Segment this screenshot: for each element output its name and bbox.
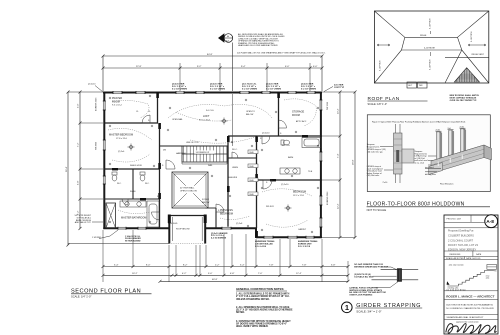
girder: bottom line (372, 279, 419, 281)
svg-text:TW 2846: TW 2846 (96, 141, 98, 150)
electrical arc: master bath (118, 210, 150, 214)
svg-text:EGRESS 3046: EGRESS 3046 (327, 191, 329, 205)
svg-text:2. ALL OPENINGS IN EXTERIOR WA: 2. ALL OPENINGS IN EXTERIOR WALL TO HAVE (236, 306, 290, 309)
svg-text:9'-4": 9'-4" (241, 66, 246, 68)
svg-text:N.J. LICENSE NO. 21AI00812700: N.J. LICENSE NO. 21AI00812700 TEL 732-55… (446, 307, 494, 310)
roof: eave boxes (407, 82, 417, 88)
svg-text:ROOM: ROOM (292, 114, 300, 117)
svg-text:NOTED.: NOTED. (236, 312, 245, 314)
svg-text:6040 SGD: 6040 SGD (168, 223, 178, 225)
fixture: hall bath tub (302, 138, 321, 148)
stair treads (184, 146, 224, 161)
svg-text:Proposed Dwelling For:: Proposed Dwelling For: (448, 230, 474, 233)
svg-text:6-12 PITCH: 6-12 PITCH (380, 60, 382, 71)
wall: sitting room top (206, 207, 217, 209)
window h11 (222, 227, 231, 230)
svg-text:LINE OF CLG: LINE OF CLG (186, 142, 199, 144)
svg-text:2 COLONIAL COURT: 2 COLONIAL COURT (448, 238, 473, 242)
wall: corridor right (227, 136, 229, 228)
svg-text:(2) 2" X 10" HEADER ABOVE UNLE: (2) 2" X 10" HEADER ABOVE UNLESS OTHERWI… (236, 309, 293, 312)
wall: WC divider (132, 170, 134, 200)
svg-text:1620 STELTON ROAD SUITE 2: 1620 STELTON ROAD SUITE 204 PISCATAWAY N… (446, 304, 493, 307)
svg-text:ATTIC ACC: ATTIC ACC (296, 120, 307, 123)
wall: bath bottom / bedroom top (257, 179, 323, 181)
fixture: shower chase X (106, 203, 116, 228)
electrical arc: storage (284, 99, 316, 126)
wall: porch back (169, 215, 206, 217)
svg-text:5'-4": 5'-4" (240, 264, 245, 266)
svg-text:5'-2 1/2" (TEMP): 5'-2 1/2" (TEMP) (301, 88, 316, 90)
section cut line (232, 43, 234, 92)
svg-text:MASTER BATHROOM: MASTER BATHROOM (121, 217, 146, 220)
window h5 (240, 91, 249, 94)
holddown: left step block (429, 163, 443, 175)
svg-text:5'-8": 5'-8" (78, 180, 80, 185)
svg-text:4-2 1/2 EGRESS: 4-2 1/2 EGRESS (211, 237, 227, 240)
wall: right exterior (320, 92, 322, 239)
window h14 (306, 236, 314, 239)
svg-text:HEADS AND SILLS PER MANUFACTUR: HEADS AND SILLS PER MANUFACTURER. (238, 44, 278, 47)
window h10 (138, 227, 146, 230)
wall poche blocks (156, 92, 159, 98)
svg-text:12'-2": 12'-2" (338, 203, 340, 209)
electrical arc: prayer (112, 100, 149, 118)
roof: slope arrows (377, 44, 390, 46)
dim: overall top 84-8 (103, 56, 322, 91)
svg-text:SCALE: 1/4" 1'-0": SCALE: 1/4" 1'-0" (71, 295, 91, 299)
svg-text:17'-8 x 13'-0: 17'-8 x 13'-0 (116, 138, 128, 140)
svg-text:2" X 6" FULL-HEIGHT WOOD STUDS: 2" X 6" FULL-HEIGHT WOOD STUDS AT 16" O.… (236, 295, 290, 298)
svg-text:A-6: A-6 (226, 40, 229, 43)
titleblock: A-8 circle (485, 215, 498, 228)
dim: top segments (103, 67, 322, 69)
titleblock: h dividers (444, 221, 498, 223)
svg-text:UNLESS OTHERWISE NOTED.: UNLESS OTHERWISE NOTED. (236, 299, 270, 301)
svg-text:R.O. 2-10 1/8: R.O. 2-10 1/8 (298, 246, 311, 248)
svg-text:PROJ NO. 1427: PROJ NO. 1427 (447, 218, 462, 220)
svg-text:OPEN TO BELOW: OPEN TO BELOW (180, 190, 197, 192)
svg-text:5'-8": 5'-8" (331, 264, 336, 266)
svg-text:6-12 PITCH: 6-12 PITCH (430, 18, 432, 29)
svg-text:CONT TYP: CONT TYP (334, 87, 345, 89)
svg-text:W/ HGR EA END: W/ HGR EA END (125, 240, 141, 243)
svg-text:REVISIONS: REVISIONS (450, 254, 462, 256)
wall: storage left (278, 92, 280, 136)
svg-text:DATE: 04-12-05: DATE: 04-12-05 (466, 257, 481, 260)
titleblock: small 2cell rect (487, 265, 497, 270)
window h3 (176, 91, 184, 94)
svg-text:at ea. stud: at ea. stud (415, 162, 424, 165)
svg-text:MASTER BEDROOM: MASTER BEDROOM (109, 134, 133, 137)
roof: outer rect (374, 11, 488, 83)
svg-text:5'-2 1/2" (TEMP): 5'-2 1/2" (TEMP) (266, 88, 281, 90)
dim: right segments (339, 92, 341, 238)
extension lines top (180, 63, 310, 91)
svg-text:(2) 2x10: (2) 2x10 (262, 133, 270, 135)
svg-text:7'-8": 7'-8" (269, 264, 274, 266)
ceiling fans (128, 144, 135, 151)
door: prayer room (142, 115, 150, 123)
electrical arc: loft (168, 105, 272, 119)
wall: top exterior (103, 92, 322, 94)
girder: number circle (342, 302, 353, 313)
svg-text:ROGER L. MANCE — ARCHITECT: ROGER L. MANCE — ARCHITECT (446, 295, 494, 299)
door: sitting room (216, 204, 224, 212)
wall: bath left (256, 136, 258, 228)
svg-text:28'-8": 28'-8" (353, 159, 355, 165)
svg-text:rim board: rim board (425, 167, 433, 169)
fixture: vanity sinks (120, 201, 146, 207)
svg-text:FOYER: FOYER (202, 199, 209, 201)
svg-text:CARPET: CARPET (298, 228, 307, 231)
roof: hip top-left (374, 11, 404, 37)
fixture: hall bath vanity (280, 168, 300, 174)
svg-text:BEDROOM: BEDROOM (293, 191, 306, 194)
svg-text:GENERAL CONSTRUCTION NOTES:: GENERAL CONSTRUCTION NOTES: (236, 287, 284, 291)
svg-text:48'-8": 48'-8" (212, 279, 218, 281)
open to below box (172, 172, 208, 208)
svg-text:9'-2": 9'-2" (197, 66, 202, 68)
svg-text:5'-4": 5'-4" (114, 264, 119, 266)
wall: bottom left section (103, 227, 169, 229)
svg-text:30x60: 30x60 (130, 191, 136, 193)
svg-text:1: 1 (345, 303, 349, 312)
window tag boxes (248, 150, 258, 154)
svg-text:COLBERT BUILDERS: COLBERT BUILDERS (448, 234, 474, 238)
svg-text:HANDRAIL: HANDRAIL (176, 152, 187, 155)
wall: step between bottom sections (255, 228, 257, 239)
svg-text:FLOOR-TO-FLOOR 800# HOLDDOWN: FLOOR-TO-FLOOR 800# HOLDDOWN (367, 201, 465, 207)
svg-text:13'-2 x 11'-8: 13'-2 x 11'-8 (293, 195, 305, 197)
svg-text:TILE: TILE (308, 171, 313, 173)
door: WC1 (122, 199, 128, 205)
svg-text:10'-2": 10'-2" (338, 108, 340, 114)
svg-text:R.O. 6-4 3/4: R.O. 6-4 3/4 (255, 245, 267, 248)
holddown: gray block (402, 149, 414, 163)
fixture: hall bath toilet (281, 140, 290, 145)
window h8 (307, 91, 315, 94)
svg-text:BELOW: BELOW (246, 114, 253, 116)
holddown: iso floor band front face (431, 145, 484, 174)
svg-text:7'-0": 7'-0" (258, 273, 263, 275)
svg-text:Figure 3: Typical 800# Floor-t: Figure 3: Typical 800# Floor-to-Floor Fr… (372, 121, 465, 124)
svg-text:SHELVES: SHELVES (228, 177, 238, 179)
wall: storage bottom / bath top (228, 135, 322, 137)
stair center rail (182, 153, 227, 155)
door: master bedroom (166, 160, 175, 169)
svg-text:LINEN: LINEN (232, 167, 238, 169)
svg-text:21'-4 x 15'-6: 21'-4 x 15'-6 (199, 120, 211, 122)
svg-text:84'-8": 84'-8" (207, 54, 213, 56)
titleblock: outer border (444, 215, 498, 334)
svg-text:LOFT: LOFT (203, 115, 210, 118)
wall: porch dashed roof edge (169, 243, 206, 245)
svg-text:3. CONTRACTOR OPTION TO INCREA: 3. CONTRACTOR OPTION TO INCREASE HEIGHT (236, 320, 291, 323)
svg-text:(2) 2x6: (2) 2x6 (118, 151, 125, 153)
svg-text:W.C.: W.C. (117, 183, 122, 185)
svg-text:OPEN RAIL: OPEN RAIL (172, 118, 184, 121)
roof: hip bottom-left (374, 50, 401, 83)
svg-text:DATE: DATE (476, 253, 482, 256)
wall: porch black jambs (168, 215, 171, 224)
svg-text:6-12 PITCH: 6-12 PITCH (471, 31, 473, 42)
svg-text:attic stair section: attic stair section (449, 264, 464, 267)
wall: bottom center-right section (206, 227, 258, 229)
svg-text:EDISON, NEW JERSEY: EDISON, NEW JERSEY (448, 248, 477, 252)
svg-text:(2) 2x8: (2) 2x8 (236, 223, 243, 225)
door: storage (279, 120, 287, 128)
wall: porch left side (168, 215, 170, 244)
window v1 (103, 101, 106, 110)
section marker A/A-6 (218, 33, 224, 43)
dim row C overall (160, 280, 348, 282)
fixture: WC1 toilet (112, 172, 117, 181)
girder: top line (381, 269, 419, 271)
switch marks (148, 120, 282, 212)
roof: hatched gable (454, 68, 479, 82)
svg-text:3'-0": 3'-0" (78, 103, 80, 108)
svg-text:7'-2": 7'-2" (78, 142, 80, 147)
svg-text:8'-2": 8'-2" (183, 264, 188, 266)
svg-text:attic: attic (486, 277, 490, 280)
svg-text:5'-0": 5'-0" (208, 273, 213, 275)
svg-text:42" HIGH WALL: 42" HIGH WALL (180, 187, 195, 190)
svg-text:5'-2 1/2" (TEMP): 5'-2 1/2" (TEMP) (172, 88, 187, 90)
window v2 (103, 140, 106, 150)
svg-text:NOT TO SCALE: NOT TO SCALE (367, 208, 387, 212)
dim: overall left 36-4 (68, 92, 169, 245)
svg-text:6'-0": 6'-0" (285, 66, 290, 68)
svg-text:0 1 2 3 4 5 6 7 8 9: 0 1 2 3 4 5 6 7 8 9 10 (447, 289, 467, 291)
svg-text:ROCKY TAYLOR, LOT 23: ROCKY TAYLOR, LOT 23 (448, 243, 478, 247)
wall: left exterior (103, 92, 105, 230)
header note clusters (172, 84, 187, 91)
svg-text:7'-8": 7'-8" (302, 264, 307, 266)
window v4 (319, 100, 322, 110)
electrical arc: sitting (220, 216, 250, 220)
roof: ridge connectors (402, 37, 462, 50)
svg-text:10d NAILS EA. SIDE: 10d NAILS EA. SIDE (354, 275, 374, 278)
holddown: straps over band (438, 155, 462, 167)
svg-text:SCALE: 3/4" = 1'-0": SCALE: 3/4" = 1'-0" (356, 310, 381, 314)
svg-text:ROOF BELOW: ROOF BELOW (176, 229, 190, 231)
svg-text:BEDROOM: BEDROOM (220, 212, 233, 215)
svg-text:RIDGE VENT: RIDGE VENT (472, 54, 485, 56)
svg-text:EGRESS 3046: EGRESS 3046 (96, 97, 98, 111)
window v5 (319, 152, 322, 161)
svg-text:(2) 2x10: (2) 2x10 (281, 184, 289, 186)
wall: prayer room bottom (104, 122, 158, 124)
outlets (109, 95, 319, 233)
holddown: iso studs (437, 132, 441, 160)
svg-text:SECOND FLOOR PLAN: SECOND FLOOR PLAN (71, 288, 141, 294)
window h12 (264, 236, 273, 239)
svg-text:HIGH. VERIFY WITH OWNER.: HIGH. VERIFY WITH OWNER. (236, 326, 269, 328)
svg-text:Requirements: Requirements (367, 145, 379, 148)
holddown: left stud bar (394, 133, 403, 174)
fixture: master tub (147, 201, 159, 227)
door: hall bath (262, 136, 270, 144)
svg-text:4'-8": 4'-8" (230, 273, 235, 275)
wall: prayer/loft divider (157, 92, 159, 123)
window h7 (288, 91, 296, 94)
dim: left segments (79, 92, 81, 229)
door: closet (232, 152, 238, 158)
svg-text:OVER 15# FELT PAPER TYP.: OVER 15# FELT PAPER TYP. (450, 99, 477, 102)
door: bedroom (263, 180, 272, 189)
holddown: iso floor band top face (431, 145, 492, 165)
holddown: band right end cap (484, 145, 492, 160)
svg-text:W.C.: W.C. (145, 183, 150, 185)
window v3 (103, 176, 106, 184)
svg-text:RIDGE: RIDGE (420, 35, 427, 37)
window h13 (288, 236, 297, 239)
svg-text:(2) 2x10: (2) 2x10 (88, 84, 96, 86)
svg-text:14 RISERS UP: 14 RISERS UP (196, 152, 210, 154)
stair landing rail (182, 162, 227, 164)
titleblock: stair marker (447, 281, 450, 285)
dim row A (103, 266, 348, 268)
svg-text:TER: TER (419, 85, 424, 87)
svg-text:6-12 PITCH: 6-12 PITCH (430, 59, 432, 70)
section cut line inside plan (232, 94, 234, 146)
fixture: WC2 toilet (140, 172, 145, 181)
svg-text:4'-2": 4'-2" (182, 273, 187, 275)
svg-text:BATH: BATH (288, 156, 294, 159)
girder: strap (397, 268, 402, 281)
holddown: left wall lines above/below (396, 124, 401, 183)
electrical arc: master bedroom (108, 128, 152, 140)
wall: sitting room left (215, 208, 217, 228)
svg-text:AND WALLS TYP.: AND WALLS TYP. (75, 221, 92, 224)
dim row B (103, 274, 348, 276)
svg-text:A-8: A-8 (486, 219, 494, 225)
svg-text:SHELF+ROD: SHELF+ROD (130, 165, 143, 167)
wall: bottom right section (256, 236, 322, 238)
svg-text:18'-2": 18'-2" (132, 273, 138, 275)
svg-text:6'-0": 6'-0" (313, 66, 318, 68)
svg-text:8'-0": 8'-0" (146, 264, 151, 266)
svg-text:SCALE: 1/8" 1'-0": SCALE: 1/8" 1'-0" (368, 103, 388, 106)
electrical arc: bedroom (262, 189, 312, 196)
window v7 (319, 218, 322, 227)
window h4 (196, 91, 204, 94)
stair label (195, 150, 215, 153)
svg-text:2'-2": 2'-2" (215, 264, 220, 266)
window h9 (118, 227, 126, 230)
svg-text:OVER FLOOR FRAMING: OVER FLOOR FRAMING (349, 294, 373, 297)
holddown: dark strap (396, 150, 399, 162)
svg-text:OPEN TO: OPEN TO (246, 111, 255, 113)
svg-text:2x6 PLATE WALL W/ 7/16 OSB SHE: 2x6 PLATE WALL W/ 7/16 OSB SHEATHING AND… (237, 52, 326, 55)
roof: ridge lower (402, 49, 462, 51)
wall: WC bottom (104, 198, 160, 200)
wall: master bedroom right (159, 123, 161, 228)
svg-text:Floor Elevation: Floor Elevation (440, 183, 453, 186)
svg-text:4-12 RIDGE: 4-12 RIDGE (424, 48, 436, 50)
svg-text:OF DOORS AND FRAMED OPENINGS T: OF DOORS AND FRAMED OPENINGS TO 8'-0" (236, 322, 287, 325)
svg-text:dbl top plate: dbl top plate (425, 173, 437, 176)
svg-text:1. ALL EXTERIOR WALLS TO BE FR: 1. ALL EXTERIOR WALLS TO BE FRAMED WITH (236, 293, 290, 296)
wall: loft bottom at stair (160, 145, 228, 147)
svg-text:5'-2 1/2" (TEMP): 5'-2 1/2" (TEMP) (210, 88, 225, 90)
svg-text:TW 3046: TW 3046 (327, 101, 329, 110)
door: master bath (152, 212, 160, 220)
wall: master bedroom bottom (104, 168, 160, 170)
svg-text:22'-8": 22'-8" (136, 66, 142, 68)
svg-text:BELOW: BELOW (202, 202, 209, 204)
svg-text:W.I.C.: W.I.C. (232, 149, 238, 151)
window h2 (136, 91, 145, 94)
bottom extension lines (103, 230, 348, 282)
stair enclosure (182, 146, 227, 162)
window h6 (262, 91, 270, 94)
svg-text:WD FLR: WD FLR (266, 206, 274, 208)
svg-text:5'-2 1/2" (TEMP): 5'-2 1/2" (TEMP) (242, 88, 257, 90)
svg-text:12'-4": 12'-4" (296, 273, 302, 275)
titleblock: v dividers (464, 215, 473, 259)
svg-text:10d nails min. typ.: 10d nails min. typ. (367, 150, 384, 153)
holddown: frame box (367, 115, 490, 192)
svg-text:SCALE: AS NOTED: SCALE: AS NOTED (446, 257, 464, 260)
holddown: band course lines (431, 149, 484, 169)
holddown: right leaders (425, 169, 441, 172)
svg-text:SIGNATURE AND SEAL OF ARCH: SIGNATURE AND SEAL OF ARCHITECT (447, 316, 485, 319)
svg-text:36'-4": 36'-4" (66, 166, 68, 172)
titleblock: stair profile (448, 270, 497, 286)
svg-text:approved for construction: approved for construction (456, 321, 479, 324)
svg-text:9'-6 x 10'-2: 9'-6 x 10'-2 (112, 105, 123, 107)
svg-text:(18) 10d nails.: (18) 10d nails. (367, 175, 380, 177)
window v6 (319, 196, 322, 205)
svg-text:ROOM: ROOM (112, 100, 120, 103)
wall: closet divider (228, 157, 257, 159)
dim: overall right 28-8 (354, 92, 356, 238)
roof: gable horizontal (445, 57, 489, 59)
roof: gable valleys (445, 50, 489, 83)
roof: hip top-right (458, 11, 489, 37)
roof: ridge upper (405, 36, 458, 38)
svg-text:5-0 CLG: 5-0 CLG (282, 145, 290, 147)
svg-text:7'-4": 7'-4" (338, 153, 340, 158)
svg-text:9-0 CLG: 9-0 CLG (206, 110, 214, 112)
wall: porch right side (204, 215, 206, 244)
window h1 (113, 91, 122, 94)
titleblock: signature (446, 324, 497, 334)
